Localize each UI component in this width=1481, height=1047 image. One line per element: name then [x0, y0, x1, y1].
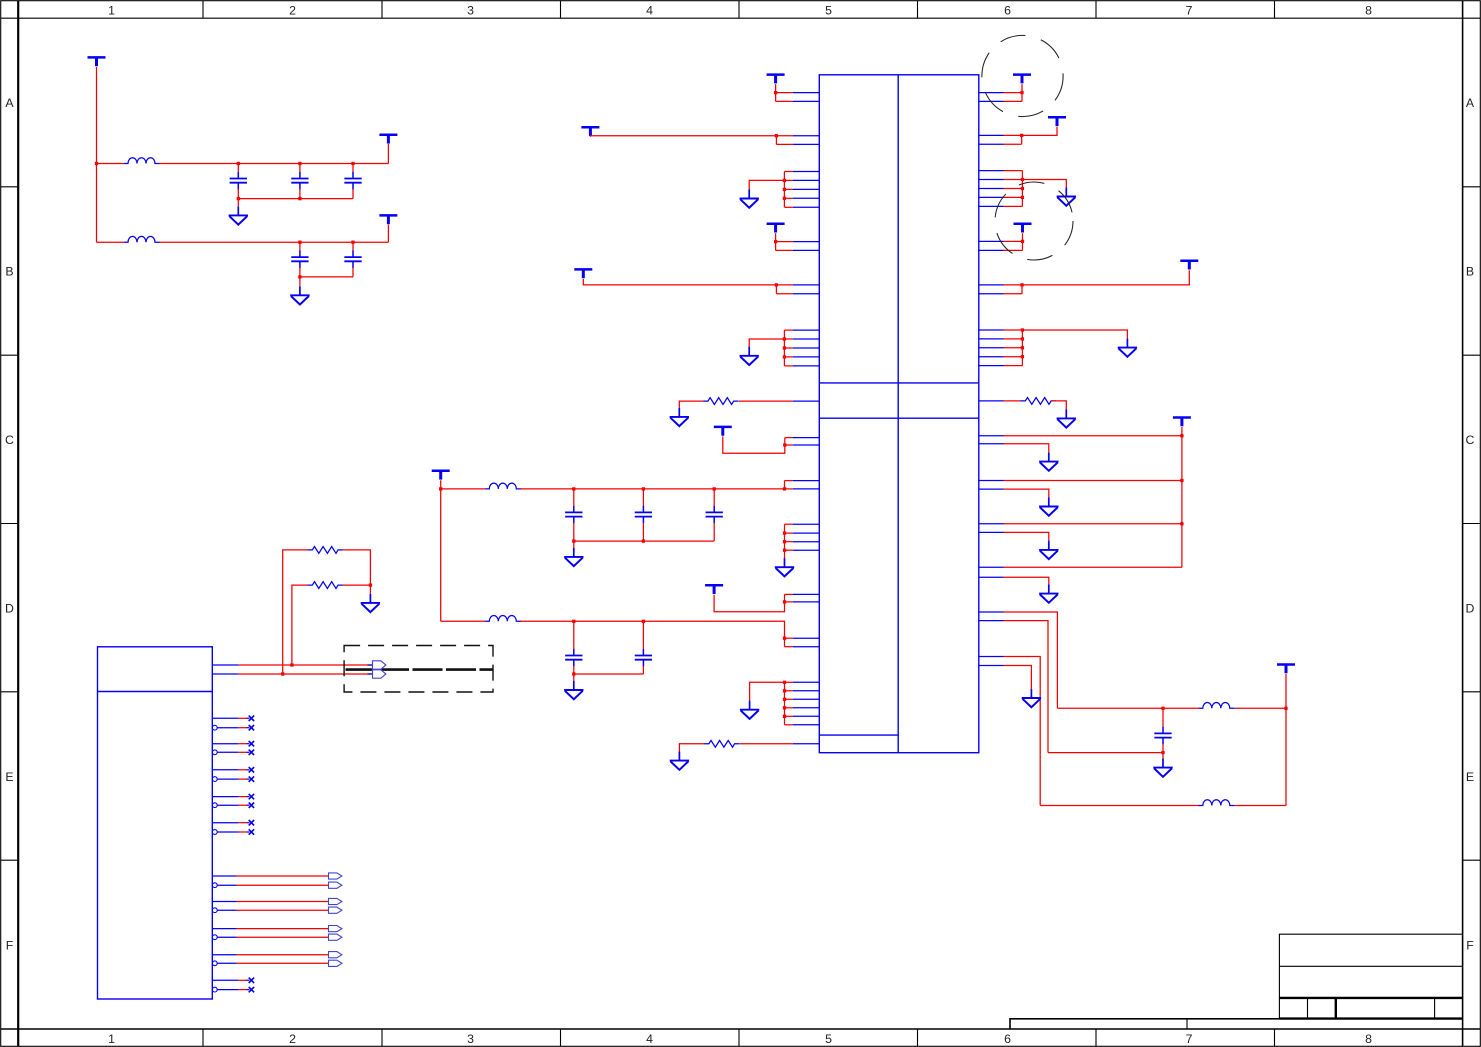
power symbol VCC6 (U1 left) [767, 224, 785, 233]
pin VSS18 (U1 left) [793, 707, 820, 709]
pin RREF-L2 (U1 left) [793, 743, 820, 745]
pin J1 nc5b [217, 831, 238, 833]
wire VCC13 drop [1022, 233, 1024, 250]
wire pin stub g3-3 [785, 541, 793, 543]
junction gndbus2/C4 [298, 275, 301, 278]
power symbol VCC10 (U1 left lower) [705, 585, 723, 594]
pin VSS4 (U1 left) [793, 197, 820, 199]
junction bus2/C10 [642, 620, 645, 623]
junction bracket g2 [783, 355, 786, 358]
power symbol VCC8 (U1 left mid) [714, 427, 732, 436]
pin VSS28 (U1 right) [979, 347, 1004, 349]
capacitor C3 [344, 172, 361, 190]
wire sig3b [237, 936, 329, 938]
wire bus1 main segment [521, 488, 785, 490]
wire pin stub e [785, 437, 793, 439]
border column tick bottom 7/8 [1274, 1029, 1276, 1046]
wire DM to port [238, 673, 372, 675]
wire pin stub g6-1 [1004, 329, 1023, 331]
wire VCC11 drop [1021, 84, 1023, 101]
power symbol VCC11 (U1 right top) [1013, 75, 1031, 84]
pin J1 nc4b [217, 804, 238, 806]
pin J1 nc3b [217, 778, 238, 780]
title block row line 1 [1279, 965, 1462, 967]
border column tick top 7/8 [1274, 1, 1276, 19]
capacitor C8 [706, 506, 723, 524]
junction gndbus1/C1 [237, 197, 240, 200]
wire sig3a [237, 928, 329, 930]
wire C2 top lead [299, 164, 301, 173]
pin J1 nc2b circle [212, 750, 217, 755]
power symbol VCC2 [379, 135, 397, 144]
resistor R1 left leg [283, 550, 308, 674]
wire C4 bottom lead [299, 268, 301, 277]
wire R1 right lead [343, 550, 370, 585]
ground symbol GND17 [1039, 585, 1058, 603]
junction bracket g6 [1021, 355, 1024, 358]
junction gndbus1/C2 [298, 197, 301, 200]
wire pin stub g [785, 593, 793, 595]
wire pin stub g3-4 [785, 549, 793, 551]
wire R node to ground [369, 585, 371, 595]
no-connect mark nc1a [247, 716, 254, 721]
junction VCC5 wire/pin [775, 134, 778, 137]
ic U1 middle divider [897, 75, 899, 753]
pin J1 nc2b [217, 751, 238, 753]
junction lc1/VCC rail [1284, 707, 1287, 710]
wire VCC5 bracket [775, 136, 777, 145]
wire pin stub g6-2 [1004, 338, 1023, 340]
wire nc6b stub [238, 989, 247, 991]
pin VSS5 (U1 left) [793, 206, 820, 208]
wire nc3a stub [238, 769, 247, 771]
wire SPK2P down [1004, 657, 1041, 806]
power symbol VCC5 (far left) [581, 127, 599, 136]
title block cell divider 3 [1434, 998, 1436, 1019]
wire VCC10 feed [714, 594, 784, 611]
svg-text:B: B [1466, 265, 1474, 279]
wire C7 bottom lead [642, 523, 644, 541]
junction row2/C4 [298, 241, 301, 244]
ic U1 band line upper [819, 382, 979, 384]
revision mark dashed circle 2 [995, 182, 1073, 260]
pin VSS30 (U1 right) [979, 365, 1004, 367]
junction bus1/C8 [713, 487, 716, 490]
pin J1 sig3b [217, 936, 236, 938]
wire bracket VSS group4 [784, 682, 786, 725]
border row tick right D/E [1463, 691, 1481, 693]
pin VSS20 (U1 left) [793, 724, 820, 726]
wire C1 to ground [237, 199, 239, 207]
junction bracket g5 [1021, 187, 1024, 190]
junction VCC14/pin [1020, 283, 1023, 286]
ic U1 body outline [819, 75, 979, 753]
pin VDD16 (U1 right) [979, 293, 1004, 295]
junction VCC6/pin [774, 240, 777, 243]
wire pin stub g6-3 [1004, 347, 1023, 349]
pin SPK1M (U1 right) [979, 620, 1004, 622]
pin J1 DM [212, 673, 238, 675]
capacitor C4 [291, 251, 308, 268]
pin VSS16 (U1 left) [793, 690, 820, 692]
pin VSS15 (U1 left) [793, 681, 820, 683]
pin J1 sig1b [217, 884, 236, 886]
wire nc1a stub [238, 717, 247, 719]
pin VSS29 (U1 right) [979, 356, 1004, 358]
border row tick right E/F [1463, 859, 1481, 861]
inductor L5 [1199, 703, 1235, 709]
pin VSS10 (U1 left) [793, 365, 820, 367]
border row tick left B/C [1, 354, 19, 356]
svg-text:6: 6 [1004, 3, 1011, 17]
wire row1 to L1 [97, 163, 125, 165]
pin VSS27 (U1 right) [979, 338, 1004, 340]
pin VSS12 (U1 left) [793, 532, 820, 534]
wire pin stub VDD d [776, 249, 793, 251]
border column tick top 6/7 [1095, 1, 1097, 19]
wire VCC14 bracket [1021, 285, 1023, 294]
ground symbol GND13 [1057, 409, 1076, 427]
wire VCC4 drop [775, 84, 777, 101]
wire C7 top lead [642, 489, 644, 506]
junction bracket g1 [783, 179, 786, 182]
junction bus2/pin [783, 637, 786, 640]
pin OUT1 (U1 right) [979, 435, 1004, 437]
wire pin stub bus2 b [785, 646, 793, 648]
wire VCC12 feed [1022, 127, 1057, 136]
junction row2/C5 [351, 241, 354, 244]
pin J1 sig4b [217, 962, 236, 964]
resistor R4 [704, 740, 739, 747]
pin J1 nc6b [217, 989, 238, 991]
pin J1 sig3a [212, 928, 236, 930]
border row tick left C/D [1, 523, 19, 525]
wire pin stub a [776, 135, 792, 137]
wire bus2 ground bus [574, 673, 644, 675]
svg-text:E: E [5, 770, 13, 784]
wire VCC6 drop [775, 233, 777, 250]
junction DP/R2 leg [290, 663, 293, 666]
wire VCC15 rail [1181, 427, 1183, 567]
pin VSS6 (U1 left) [793, 329, 820, 331]
port symbol sig4b [329, 960, 342, 966]
pin J1 nc1b circle [212, 725, 217, 730]
resistor R3 [703, 398, 738, 405]
resistor R2 [308, 582, 343, 589]
no-connect mark nc1b [247, 725, 254, 730]
pin VSS24 (U1 right) [979, 196, 1004, 198]
svg-text:4: 4 [646, 1032, 653, 1046]
wire nc5a stub [238, 822, 247, 824]
pin J1 nc2a [212, 743, 238, 745]
pin VDD12 (U1 right) [979, 143, 1004, 145]
wire bus2 main segment [521, 621, 785, 646]
pin J1 nc3a [212, 769, 238, 771]
pin VDD15 (U1 right) [979, 284, 1004, 286]
no-connect mark nc4b [247, 803, 254, 808]
wire pin stub VDD b [776, 100, 793, 102]
ic U1 band line lower [819, 417, 979, 419]
wire row1 riser to VCC2 [387, 144, 389, 164]
wire OUT1G to ground [1004, 444, 1049, 454]
wire bracket VSS group1 [783, 172, 785, 208]
junction bus1/C7 [642, 487, 645, 490]
pin J1 nc5a [212, 822, 238, 824]
wire resistor R5 left lead [1004, 400, 1021, 402]
wire pin stub r-d [1004, 143, 1022, 145]
wire pin stub g3-1 [785, 523, 793, 525]
junction lc2/C11 [1161, 751, 1164, 754]
ground symbol GND3 [740, 190, 759, 208]
power symbol VCC4 (U1 left top) [767, 75, 785, 84]
pin RREF-R (U1 right) [979, 400, 1004, 402]
resistor R2 left leg [292, 585, 308, 665]
junction bracket g1 [783, 188, 786, 191]
wire C11 to ground [1162, 753, 1164, 760]
wire pin stub g4-1 [785, 681, 793, 683]
wire DM pin stub [368, 673, 373, 675]
border inner left line [17, 1, 19, 1047]
wire SPK1M down [1004, 621, 1049, 753]
wire g1 to ground [749, 180, 784, 190]
wire pin stub c [776, 284, 792, 286]
wire pin stub g1-5 [784, 206, 792, 208]
no-connect mark nc3b [247, 776, 254, 781]
title block cell divider 2 thick [1335, 998, 1337, 1019]
svg-text:D: D [1466, 602, 1475, 616]
svg-text:1: 1 [108, 3, 115, 17]
port symbol sig2b [329, 907, 342, 913]
wire lc row1 left segment [1057, 707, 1199, 709]
pin VSS8 (U1 left) [793, 347, 820, 349]
ground symbol GND7 [775, 558, 794, 576]
ground symbol GND18 [1022, 689, 1041, 707]
pin J1 nc6b circle [212, 987, 217, 992]
wire C10 bottom lead [642, 666, 644, 674]
wire VCC9 rail [440, 480, 442, 621]
border row tick right B/C [1463, 354, 1481, 356]
svg-text:6: 6 [1004, 1032, 1011, 1046]
svg-text:2: 2 [289, 1032, 296, 1046]
wire pin stub r-g [1004, 284, 1023, 286]
wire row1 ground bus [238, 198, 353, 200]
capacitor C1 [230, 172, 247, 190]
border row tick right C/D [1463, 523, 1481, 525]
border column tick top 5/6 [917, 1, 919, 19]
wire pin stub g5-3 [1004, 188, 1023, 190]
svg-text:7: 7 [1186, 1032, 1193, 1046]
wire VCC12 bracket [1021, 135, 1023, 144]
wire C8 top lead [713, 489, 715, 506]
pin J1 nc4b circle [212, 803, 217, 808]
pin VSS19 (U1 left) [793, 715, 820, 717]
junction gndbus4/C9 [572, 672, 575, 675]
border row tick left A/B [1, 186, 19, 188]
power symbol VCC1 top-left [88, 57, 106, 66]
wire pin stub h [785, 601, 793, 603]
port symbol DP [373, 661, 386, 669]
junction VCC8/pin [783, 443, 786, 446]
border column tick bottom 3/4 [560, 1029, 562, 1046]
pin VSS2 (U1 left) [793, 179, 820, 181]
inductor L1 [124, 158, 160, 164]
wire g6 to ground [1021, 328, 1024, 331]
pin J1 sig2a [212, 901, 236, 903]
wire nc5b stub [238, 831, 247, 833]
pin VSS9 (U1 left) [793, 356, 820, 358]
wire OUT4G to ground [1004, 577, 1049, 585]
junction lc1/C11 [1161, 707, 1164, 710]
power symbol VCC14 [1180, 261, 1198, 270]
wire nc3b stub [238, 778, 247, 780]
junction bus1/pin [783, 487, 786, 490]
junction bracket g6 [1021, 337, 1024, 340]
wire VCC7 bracket [775, 285, 777, 294]
wire pin stub VDD a [776, 92, 793, 94]
wire C9 to ground [573, 674, 575, 682]
wire pin stub g2-2 [784, 338, 792, 340]
ground symbol GND1 [229, 206, 248, 224]
svg-text:C: C [1466, 433, 1475, 447]
wire SPK2G to ground [1004, 666, 1032, 690]
ground symbol GND19 [1153, 759, 1172, 777]
wire R2 right lead [343, 584, 370, 586]
ground symbol GND11 [1057, 188, 1076, 206]
junction bracket g2 [783, 337, 786, 340]
wire VCC1 vertical rail [96, 67, 98, 242]
wire row1 bus [159, 163, 388, 165]
wire C6 bottom lead [573, 523, 575, 541]
inductor L4 [485, 616, 521, 622]
wire C4 top lead [299, 242, 301, 251]
svg-text:1: 1 [108, 1032, 115, 1046]
wire pin stub b [776, 143, 792, 145]
title block extension strip divider [1186, 1019, 1188, 1029]
pin VSS14 (U1 left) [793, 549, 820, 551]
wire g5 to ground [1022, 180, 1066, 189]
border column tick bottom 6/7 [1095, 1029, 1097, 1046]
border row tick left D/E [1, 691, 19, 693]
title block bottom thick line [1279, 1017, 1462, 1019]
wire bracket VSS group3 [784, 524, 786, 558]
wire pin stub r-c [1004, 134, 1022, 136]
wire sig2a [237, 901, 329, 903]
ground symbol GND9 [740, 701, 759, 719]
port symbol sig1a [329, 873, 342, 879]
wire row2 ground bus [300, 276, 353, 278]
junction rail/row 523 [1180, 522, 1183, 525]
svg-text:4: 4 [646, 3, 653, 17]
wire C5 bottom lead [352, 268, 354, 277]
ic U1 bottom-left cell divider [819, 734, 898, 736]
junction bracket g5 [1021, 196, 1024, 199]
pin VSS25 (U1 right) [979, 205, 1004, 207]
inductor L2 [124, 236, 160, 242]
capacitor C6 [565, 506, 582, 524]
junction VCC12/pin [1020, 134, 1023, 137]
wire pin stub g4-6 [785, 724, 793, 726]
pin OUT4 (U1 right) [979, 566, 1004, 568]
wire pin stub r-h [1004, 293, 1023, 295]
wire pin stub g4-2 [785, 690, 793, 692]
wire sig4a [237, 954, 329, 956]
pin AVDD2 (U1 left) [793, 488, 820, 490]
wire OUT1 to VCC rail [1004, 435, 1182, 437]
border column tick top 1/2 [202, 1, 204, 19]
wire nc2a stub [238, 743, 247, 745]
wire bracket VSS group2 [783, 330, 785, 366]
pin VSS26 (U1 right) [979, 329, 1004, 331]
wire nc4a stub [238, 796, 247, 798]
junction rail/row1 [95, 162, 98, 165]
wire bus1 riser at pins [784, 481, 786, 489]
no-connect mark nc6a [247, 978, 254, 983]
pin J1 sig2b circle [212, 908, 217, 913]
svg-text:E: E [1466, 770, 1474, 784]
no-connect mark nc2a [247, 741, 254, 746]
wire pin stub r-f [1004, 249, 1023, 251]
wire OUT2G to ground [1004, 489, 1049, 498]
pin J1 nc4a [212, 796, 238, 798]
wire OUT3G to ground [1004, 532, 1049, 541]
no-connect mark nc2b [247, 750, 254, 755]
junction row1/C2 [298, 162, 301, 165]
pin J1 nc3b circle [212, 777, 217, 782]
wire row2 to L2 [97, 241, 125, 243]
resistor R1 [308, 547, 343, 554]
wire DP to port [238, 664, 372, 666]
wire C2 bottom lead [299, 189, 301, 199]
wire sig1a [237, 875, 329, 877]
capacitor C5 [344, 251, 361, 268]
junction bracket g3 [783, 549, 786, 552]
pin VDDA1 (U1 left) [793, 437, 820, 439]
cable shield line [346, 668, 493, 671]
svg-text:C: C [5, 433, 14, 447]
border column tick bottom 2/3 [381, 1029, 383, 1046]
junction R1/R2 node [369, 583, 372, 586]
wire VCC7 long feed [583, 279, 776, 285]
pin SPK1P (U1 right) [979, 611, 1004, 613]
wire DP pin stub [368, 664, 373, 666]
wire bracket VSS group5 [1021, 171, 1023, 207]
wire C4 to ground [299, 277, 301, 286]
pin J1 sig3b circle [212, 935, 217, 940]
pin OUT3G (U1 right) [979, 531, 1004, 533]
border column tick bottom 1/2 [202, 1029, 204, 1046]
wire C11 bottom lead [1162, 744, 1164, 753]
wire pin stub g2-3 [784, 347, 792, 349]
junction DM/R1 leg [281, 672, 284, 675]
pin VDD11 (U1 right) [979, 134, 1004, 136]
pin VDDP2 (U1 left) [793, 601, 820, 603]
pin VDD5 (U1 left) [793, 241, 820, 243]
pin J1 sig1b circle [212, 883, 217, 888]
wire C10 top lead [642, 621, 644, 649]
svg-text:3: 3 [467, 3, 474, 17]
ground symbol GND20 [361, 594, 380, 612]
junction bracket g4 [783, 698, 786, 701]
no-connect mark nc3a [247, 767, 254, 772]
pin VDD1 (U1 left) [793, 92, 820, 94]
wire pin stub VDD c [776, 241, 793, 243]
wire pin stub g2-5 [784, 365, 792, 367]
power symbol VCC3 [379, 215, 397, 224]
port symbol DM [373, 670, 386, 678]
pin J1 nc6a [212, 979, 238, 981]
junction VCC9/bus1 [439, 487, 442, 490]
pin VDD3 (U1 left) [793, 135, 820, 137]
